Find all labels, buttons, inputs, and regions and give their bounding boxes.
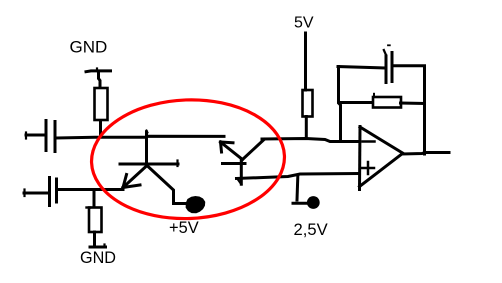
svg-text:GND: GND	[70, 37, 108, 56]
svg-text:5V: 5V	[294, 15, 314, 32]
svg-text:+5V: +5V	[169, 219, 199, 237]
svg-text:GND: GND	[80, 249, 116, 267]
svg-text:2,5V: 2,5V	[294, 220, 328, 239]
